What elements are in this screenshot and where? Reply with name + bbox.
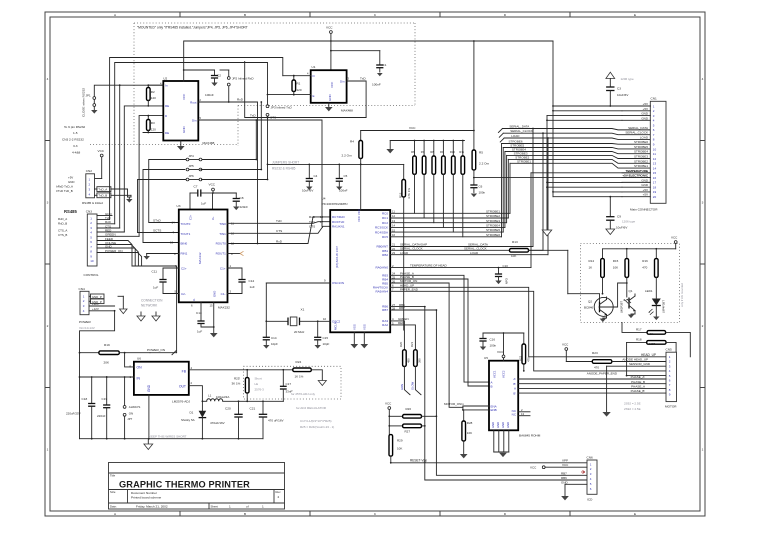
wire STROBE2 from PIC pin 12 <box>390 159 508 218</box>
capacitor C12 <box>228 264 255 294</box>
svg-text:Shotky 5A: Shotky 5A <box>181 418 195 422</box>
note MOUNTED only if RS485 installed <box>137 26 248 30</box>
svg-text:IrRxD TxD_A: IrRxD TxD_A <box>56 185 73 189</box>
power VCC top <box>326 26 333 71</box>
wire CN1 pin stubs <box>622 102 650 197</box>
power VCC sensor <box>603 236 678 250</box>
svg-text:JP1: JP1 <box>86 94 92 98</box>
svg-text:DE: DE <box>165 131 169 135</box>
svg-text:SERIAL_DATA: SERIAL_DATA <box>509 125 529 129</box>
svg-text:3K 1%: 3K 1% <box>232 382 241 386</box>
wire JP6 right to TxD net <box>202 117 269 181</box>
svg-text:10: 10 <box>90 259 94 263</box>
svg-text:PHASE_A: PHASE_A <box>631 385 645 389</box>
capacitor C16 <box>479 332 504 361</box>
note motor resistance values <box>624 402 641 412</box>
svg-text:13: 13 <box>521 412 525 416</box>
capacitor C10 <box>495 264 509 284</box>
jumper JP7 ALWAYS ON <box>123 376 140 439</box>
wire HEAD_UP <box>390 284 666 357</box>
wire +5V ELECTRONIC to CN1 <box>473 174 650 179</box>
svg-text:3-3: 3-3 <box>73 144 78 148</box>
resistor R9 <box>440 140 445 228</box>
svg-text:VCC: VCC <box>326 26 333 30</box>
svg-text:2.2 Om: 2.2 Om <box>479 162 490 166</box>
svg-text:RC3/SCK: RC3/SCK <box>375 226 388 230</box>
svg-text:RESET-Vpp: RESET-Vpp <box>410 458 427 462</box>
svg-text:JP4: JP4 <box>189 154 195 158</box>
svg-text:220uF/25V: 220uF/25V <box>66 412 81 416</box>
svg-text:RxD_A: RxD_A <box>58 217 67 221</box>
svg-text:RC0: RC0 <box>382 212 388 216</box>
resistor R23 <box>592 351 666 370</box>
svg-text:GLOW: GLOW <box>411 381 415 390</box>
wire RB7 <box>390 306 587 475</box>
svg-text:Din: Din <box>192 119 197 123</box>
svg-text:R16: R16 <box>642 259 648 263</box>
power arrow at R24 <box>318 381 326 386</box>
dotted outline ADJ regulator note area <box>244 366 342 399</box>
svg-text:1206 type: 1206 type <box>622 220 636 224</box>
net label POWER_ON <box>124 348 177 355</box>
svg-text:+5V ELECTRONIC: +5V ELECTRONIC <box>622 174 648 178</box>
svg-text:C1: C1 <box>383 63 387 67</box>
resistor R17 <box>622 323 690 357</box>
wire CN6 RB6 <box>561 476 567 480</box>
svg-text:R11: R11 <box>459 150 464 154</box>
svg-text:ANODE_PAPER_END: ANODE_PAPER_END <box>587 372 618 376</box>
wire TEMPERATURE to CN1 <box>531 169 650 173</box>
svg-text:E: E <box>634 13 636 17</box>
svg-text:JP7: JP7 <box>127 417 132 421</box>
svg-text:490: 490 <box>407 358 411 363</box>
svg-text:2: 2 <box>278 495 280 499</box>
svg-text:TxD: TxD <box>276 219 282 223</box>
svg-text:Rout: Rout <box>190 101 197 105</box>
svg-text:C5: C5 <box>344 174 348 178</box>
resistor R24 <box>293 360 323 381</box>
svg-text:Size: Size <box>110 490 116 494</box>
svg-text:VSS: VSS <box>362 324 366 330</box>
svg-text:C17=L1/(R1*10^3*R25): C17=L1/(R1*10^3*R25) <box>300 419 332 423</box>
wire LOAD from PIC pin 23 <box>390 137 549 255</box>
svg-text:GND: GND <box>641 116 649 120</box>
svg-text:CN4: CN4 <box>79 287 85 291</box>
svg-text:R8: R8 <box>430 150 434 154</box>
label MAX488 U2 <box>203 141 215 145</box>
wire STROBE1 from PIC pin 11 <box>390 163 510 213</box>
svg-text:15: 15 <box>653 171 657 175</box>
svg-text:100n: 100n <box>479 190 486 194</box>
wire STROBE5 from PIC pin 15 <box>390 147 503 232</box>
svg-text:B: B <box>244 13 246 17</box>
wire U6 OUT to L1 rail <box>189 386 203 402</box>
svg-text:+5V: +5V <box>643 188 648 192</box>
svg-text:To 9 pin RS232: To 9 pin RS232 <box>64 125 85 129</box>
wire jumper JP2 top <box>220 69 229 71</box>
svg-text:Sheet: Sheet <box>211 505 219 509</box>
svg-text:STROBE3: STROBE3 <box>486 219 500 223</box>
ground below CN2 wires <box>126 199 132 203</box>
svg-text:MAX488: MAX488 <box>203 141 215 145</box>
diode D1 Shotky <box>181 401 206 438</box>
note CONNECTION NETWORK grounds <box>141 299 163 308</box>
svg-text:C10: C10 <box>503 264 509 268</box>
capacitor C7 <box>190 185 213 210</box>
svg-text:100R: 100R <box>649 342 655 346</box>
svg-text:390: 390 <box>418 358 422 363</box>
svg-text:R7: R7 <box>421 150 425 154</box>
label CONTROL <box>84 273 99 277</box>
svg-text:1K: 1K <box>589 266 593 270</box>
label POWER <box>79 320 95 330</box>
svg-text:C18: C18 <box>82 397 88 401</box>
svg-text:2576-3: 2576-3 <box>255 388 265 392</box>
wire R13 net to sensor <box>529 250 568 293</box>
connector CN3 <box>58 210 97 267</box>
svg-text:OUT: OUT <box>179 385 186 389</box>
crystal X1 circuit <box>265 279 330 334</box>
svg-text:TxD_A: TxD_A <box>98 188 107 192</box>
svg-text:10: 10 <box>653 147 657 151</box>
svg-text:CN5: CN5 <box>666 348 672 352</box>
svg-text:JP2 Inlined RxD: JP2 Inlined RxD <box>232 76 254 80</box>
wire bus SERIAL_CLOCK <box>499 129 650 137</box>
svg-text:15: 15 <box>210 304 214 308</box>
note RS485 & InRed <box>82 201 103 205</box>
svg-text:C1-: C1- <box>221 292 226 296</box>
svg-text:VCC: VCC <box>497 350 504 354</box>
connector CN6 ICD <box>587 456 598 495</box>
wire U5 GND pins <box>494 430 509 457</box>
dotted outline RS485 optional area <box>90 23 415 146</box>
capacitor C6 <box>470 185 485 198</box>
svg-text:PHASE_A': PHASE_A' <box>631 375 646 379</box>
net label GND_P boxed 1 <box>89 294 104 299</box>
svg-text:1: 1 <box>47 448 49 452</box>
regulator U6 LM2576-ADJ <box>130 357 193 395</box>
svg-text:16: 16 <box>653 176 657 180</box>
svg-text:RC5: RC5 <box>382 235 388 239</box>
svg-text:C8: C8 <box>240 196 244 200</box>
wire PIC VCC top pin <box>360 164 362 210</box>
svg-text:C6: C6 <box>479 185 483 189</box>
svg-text:PAPER_END: PAPER_END <box>400 288 419 292</box>
svg-text:TxD_B: TxD_B <box>98 194 107 198</box>
svg-text:120: 120 <box>151 128 156 132</box>
wire U6 ON pin <box>125 353 134 367</box>
svg-text:SERIAL_DATA: SERIAL_DATA <box>628 126 648 130</box>
resistor R28 <box>462 410 473 454</box>
svg-text:RB7: RB7 <box>382 308 388 312</box>
svg-text:2S92 = 4.5E: 2S92 = 4.5E <box>624 407 641 411</box>
svg-text:RB2: RB2 <box>382 253 388 257</box>
svg-text:RS485: RS485 <box>64 209 77 214</box>
svg-text:HEAD_UP: HEAD_UP <box>641 353 656 357</box>
svg-text:20: 20 <box>653 195 657 199</box>
svg-text:VCC: VCC <box>530 466 537 470</box>
svg-text:ON: ON <box>129 411 133 415</box>
wire motor phases to CN5 <box>518 375 666 393</box>
wire U2 VCC rail <box>183 40 553 81</box>
label ICD <box>587 498 593 502</box>
label MOTOR <box>665 405 677 409</box>
svg-text:B: B <box>244 512 246 516</box>
svg-text:U5: U5 <box>484 356 488 360</box>
svg-text:VSS: VSS <box>352 324 356 330</box>
svg-text:23: 23 <box>392 251 396 255</box>
resistor R20 <box>399 341 411 394</box>
ground triangle below CN1 GND <box>542 230 552 236</box>
svg-text:CTS: CTS <box>276 229 282 233</box>
ground below C2 <box>211 83 217 87</box>
label Main CONNECTOR <box>630 208 658 212</box>
resistor R29 <box>389 435 403 463</box>
svg-text:220nF: 220nF <box>240 205 249 209</box>
jumper JP6 <box>186 174 202 181</box>
power VCC at CN6 <box>530 463 587 469</box>
svg-text:+12V: +12V <box>92 307 99 311</box>
capacitor C20 polarized <box>210 401 243 438</box>
capacitor C9 <box>606 196 636 235</box>
svg-text:+5V: +5V <box>643 107 648 111</box>
svg-text:1uF: 1uF <box>250 285 255 289</box>
resistor R21 <box>410 341 422 394</box>
svg-text:C20: C20 <box>225 407 231 411</box>
svg-text:SENSOR_GND: SENSOR_GND <box>629 362 651 366</box>
svg-text:Din: Din <box>340 79 345 83</box>
note only if LW mounted <box>680 283 684 307</box>
svg-text:V-: V- <box>192 298 196 301</box>
svg-text:1uF: 1uF <box>201 202 206 206</box>
wire TxD U3 to PIC <box>228 219 331 226</box>
svg-text:1uF: 1uF <box>153 286 158 290</box>
svg-text:C9: C9 <box>617 215 621 219</box>
svg-text:CONTROL: CONTROL <box>84 273 99 277</box>
svg-text:100nF: 100nF <box>339 189 348 193</box>
svg-text:RIN1: RIN1 <box>181 251 188 255</box>
svg-text:R26: R26 <box>406 407 412 411</box>
svg-text:CN2: CN2 <box>86 169 92 173</box>
wire TEMPERATURE OF HEAD from PIC pin 2 <box>390 173 531 269</box>
svg-text:Vin=10-14V: Vin=10-14V <box>79 326 95 330</box>
ground symbol pair <box>137 312 160 321</box>
label MAX488 U1 <box>341 109 353 113</box>
svg-text:U3: U3 <box>177 204 181 208</box>
wire CN6 RB7 <box>561 471 567 475</box>
power VCC for CN2 <box>95 149 105 179</box>
svg-text:(RS) 62:6-35 1=67!: (RS) 62:6-35 1=67! <box>335 246 339 268</box>
ground below U3 <box>210 302 218 337</box>
svg-text:BIN0: BIN0 <box>181 242 188 246</box>
svg-text:TxD: TxD <box>309 220 315 224</box>
svg-text:TxD: TxD <box>360 76 366 80</box>
svg-text:VCC1: VCC1 <box>493 370 497 378</box>
resistor R5 <box>472 131 489 185</box>
power VCC for U3 <box>209 183 237 210</box>
svg-text:470 uF/16V: 470 uF/16V <box>268 419 284 423</box>
label PIC left pin numbers <box>309 215 324 229</box>
svg-text:LOAD: LOAD <box>511 134 520 138</box>
svg-text:U1: U1 <box>312 65 316 69</box>
wire U6 GND stem <box>148 395 150 439</box>
wire GND vertical at CN1 <box>546 116 622 230</box>
wire U2 DE <box>143 132 163 134</box>
wire bus STROBE3 <box>507 151 651 158</box>
svg-text:STROBE2: STROBE2 <box>634 159 648 163</box>
svg-text:B': B' <box>513 391 516 395</box>
svg-text:19: 19 <box>653 190 657 194</box>
svg-text:LOAD: LOAD <box>470 251 479 255</box>
svg-text:14: 14 <box>653 166 657 170</box>
wire RESET-Vpp <box>390 458 587 463</box>
svg-text:4.7K 1%: 4.7K 1% <box>407 188 411 199</box>
svg-text:11: 11 <box>392 210 395 214</box>
svg-text:RxD_B: RxD_B <box>58 222 67 226</box>
svg-text:STROBE1: STROBE1 <box>517 159 531 163</box>
svg-text:13: 13 <box>170 241 174 245</box>
svg-text:R10: R10 <box>450 150 455 154</box>
svg-text:FB: FB <box>182 369 187 373</box>
svg-text:1uF: 1uF <box>197 330 202 334</box>
svg-text:Main CONNECTOR: Main CONNECTOR <box>630 208 658 212</box>
jumper JP1 <box>86 84 164 110</box>
svg-text:GND: GND <box>641 112 649 116</box>
svg-text:C14: C14 <box>271 336 277 340</box>
wire PAPER_END <box>390 288 666 371</box>
wire CN6 GND <box>561 480 587 500</box>
svg-text:R23: R23 <box>592 351 598 355</box>
svg-text:X1: X1 <box>301 308 305 312</box>
svg-text:R21: R21 <box>410 341 414 347</box>
power flag GND_P <box>118 296 127 313</box>
svg-text:GND: GND <box>213 291 217 297</box>
wire STROBE4 from PIC pin 14 <box>390 151 505 227</box>
wire RxD U3 to PIC <box>228 217 331 246</box>
wire bus STROBE1 <box>510 159 650 168</box>
wire MCLR pullup net <box>267 164 404 180</box>
op-amp U1 MAX488 <box>307 65 350 103</box>
resistor R16 <box>642 249 658 278</box>
svg-text:MAX232: MAX232 <box>218 306 230 310</box>
svg-text:LOAD: LOAD <box>640 135 649 139</box>
svg-text:RB7: RB7 <box>399 306 405 310</box>
wire MOTOR_ON <box>390 279 463 407</box>
svg-text:28: 28 <box>392 306 396 310</box>
svg-text:GND: GND <box>68 180 74 184</box>
inductor L1 <box>202 394 284 403</box>
capacitor C1 <box>330 50 387 87</box>
svg-text:100nF: 100nF <box>205 93 214 97</box>
svg-text:VCC: VCC <box>671 236 678 240</box>
svg-text:CN1: CN1 <box>651 97 657 101</box>
svg-text:RA0/AN0: RA0/AN0 <box>375 266 388 270</box>
svg-text:12: 12 <box>231 242 235 246</box>
ground below Q1 <box>628 314 635 318</box>
capacitor C4 <box>302 164 318 193</box>
svg-text:U4: U4 <box>322 197 326 201</box>
svg-text:Q1: Q1 <box>629 289 633 293</box>
svg-text:R18: R18 <box>636 338 642 342</box>
border frame <box>45 12 705 516</box>
net label GND_P boxed 2 <box>89 299 104 304</box>
svg-text:L9P4F3BT: L9P4F3BT <box>662 300 666 313</box>
svg-text:TIN0: TIN0 <box>219 222 226 226</box>
svg-text:2.2 Om: 2.2 Om <box>342 154 353 158</box>
wire TxD line <box>245 61 366 118</box>
svg-text:STROBE3: STROBE3 <box>634 155 648 159</box>
svg-text:18: 18 <box>653 185 657 189</box>
svg-text:RA1/KN1: RA1/KN1 <box>332 225 345 229</box>
note CLOSE when RS232 <box>82 88 86 117</box>
no-connect arrow CN6 pin3 <box>581 470 585 473</box>
wire SERIAL_DATA/GAP from PIC pin 21 <box>390 128 534 247</box>
svg-text:10K: 10K <box>467 431 472 435</box>
svg-text:STROBE4: STROBE4 <box>634 150 648 154</box>
svg-text:RC6/TxD: RC6/TxD <box>332 220 345 224</box>
note for 2576-ADJ only <box>291 392 316 396</box>
svg-text:GRAPHIC THERMO PRINTER: GRAPHIC THERMO PRINTER <box>119 480 250 490</box>
svg-text:CTS_A: CTS_A <box>58 229 67 233</box>
svg-text:PHASE_B: PHASE_B <box>631 380 645 384</box>
svg-text:12: 12 <box>392 214 396 218</box>
svg-text:C2+: C2+ <box>181 266 187 270</box>
svg-text:JP3 Inlined TxD: JP3 Inlined TxD <box>271 106 293 110</box>
wire PHASE_A <box>390 272 489 383</box>
wire U6 IN pin <box>79 376 134 378</box>
svg-text:U2: U2 <box>163 77 167 81</box>
svg-text:Short: Short <box>255 377 262 381</box>
svg-text:LE: LE <box>255 382 259 386</box>
svg-text:R20: R20 <box>399 341 403 347</box>
ground sensor gnd <box>602 412 610 417</box>
svg-text:1: 1 <box>262 505 264 509</box>
svg-text:U6: U6 <box>137 357 141 361</box>
label RS485 <box>64 209 77 214</box>
wire JP4 left to STxD <box>149 160 186 225</box>
svg-text:GND: GND <box>641 178 649 182</box>
capacitor C5 <box>336 164 348 193</box>
svg-text:2S92 = 2.5E: 2S92 = 2.5E <box>624 402 641 406</box>
svg-text:4: 4 <box>702 77 704 81</box>
svg-text:VCC: VCC <box>182 93 186 100</box>
svg-text:RS485 & InRed: RS485 & InRed <box>82 201 103 205</box>
svg-text:RED: RED <box>398 321 405 325</box>
svg-text:GRN: GRN <box>400 384 404 390</box>
svg-text:JUMPERS SHORT: JUMPERS SHORT <box>272 161 299 165</box>
svg-text:+5V: +5V <box>68 176 73 180</box>
svg-text:470: 470 <box>527 357 531 362</box>
ground below U1 <box>325 103 333 112</box>
svg-text:JP5: JP5 <box>189 164 195 168</box>
net label TxD_B boxed <box>95 193 132 198</box>
svg-text:10pF: 10pF <box>271 342 278 346</box>
svg-text:C15: C15 <box>323 336 329 340</box>
wire JP5 right to RxD net <box>201 101 262 170</box>
svg-text:10: 10 <box>323 317 327 321</box>
wire U5 NC stubs <box>518 408 530 416</box>
net label TxD_A boxed <box>95 187 128 192</box>
svg-text:MAX232: MAX232 <box>198 252 202 264</box>
svg-text:20K: 20K <box>104 361 110 365</box>
svg-text:C1+: C1+ <box>220 266 226 270</box>
svg-text:STROBE6: STROBE6 <box>634 140 648 144</box>
capacitor C17 <box>280 370 293 402</box>
svg-text:RC7/RxD: RC7/RxD <box>332 215 346 219</box>
svg-text:R2: R2 <box>151 90 155 94</box>
wire ENA ENB <box>444 402 489 411</box>
title block <box>109 463 285 510</box>
